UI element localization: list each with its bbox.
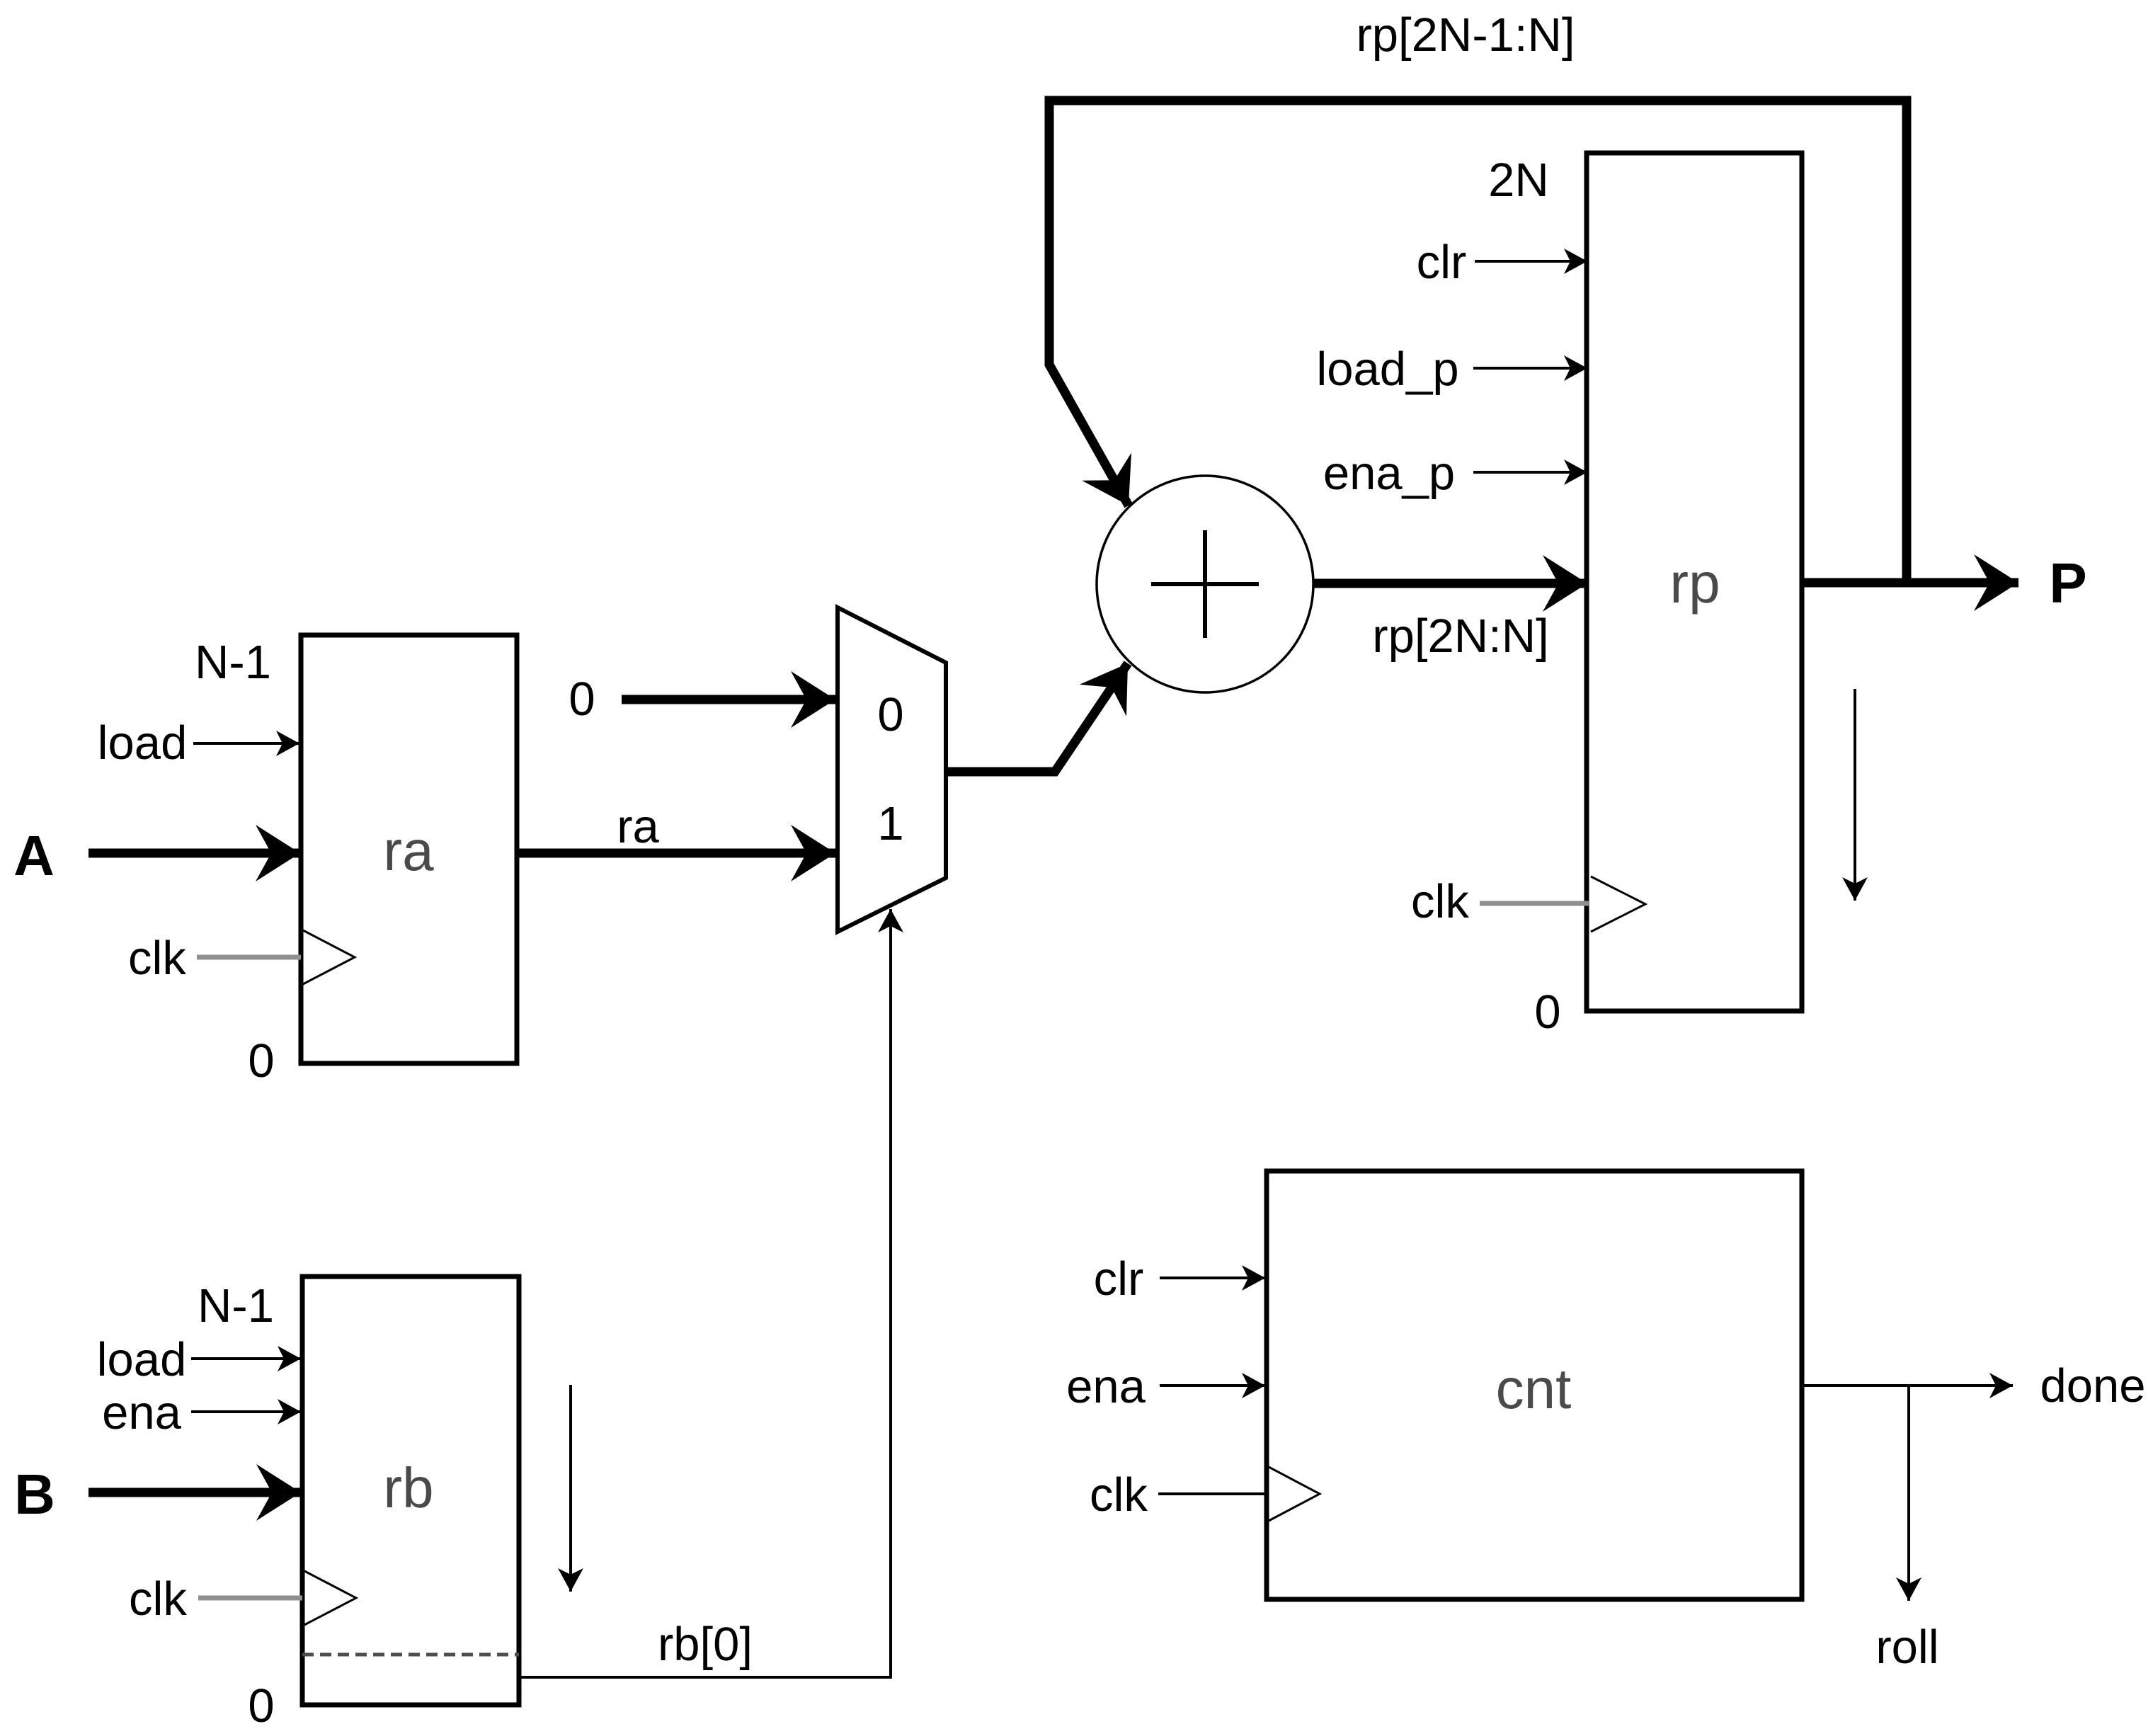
wire adder -> rp (bus) rp[2N:N]	[1313, 579, 1587, 588]
svg-text:clk: clk	[129, 1572, 187, 1626]
svg-text:clk: clk	[1090, 1468, 1148, 1521]
counter cnt	[1267, 1171, 1802, 1599]
svg-text:A: A	[13, 824, 55, 887]
wire A -> ra (bus)	[88, 849, 300, 858]
svg-text:0: 0	[569, 673, 595, 726]
mux M1	[838, 607, 946, 932]
svg-text:N-1: N-1	[195, 636, 271, 689]
svg-text:1: 1	[877, 797, 903, 850]
svg-text:ena: ena	[102, 1386, 182, 1439]
wire cnt -> done	[1802, 1384, 2013, 1387]
adder plus sign	[1151, 582, 1259, 586]
register ra	[301, 635, 517, 1063]
adder U1 (circle)	[1097, 476, 1313, 692]
svg-text:clr: clr	[1094, 1252, 1144, 1306]
svg-text:rp[2N-1:N]: rp[2N-1:N]	[1356, 8, 1575, 62]
svg-text:clr: clr	[1417, 236, 1467, 289]
register rp clock triangle	[1591, 876, 1645, 932]
shift-down arrow (rb)	[569, 1385, 572, 1592]
wire load -> rb	[191, 1357, 301, 1360]
svg-text:load: load	[98, 716, 188, 770]
counter cnt clock triangle	[1269, 1467, 1320, 1521]
register ra clock triangle	[303, 930, 355, 984]
svg-text:roll: roll	[1875, 1621, 1938, 1674]
svg-text:2N: 2N	[1488, 154, 1549, 207]
svg-text:ra: ra	[383, 819, 434, 882]
svg-text:clk: clk	[128, 932, 186, 985]
register rp	[1587, 153, 1802, 1011]
wire clk -> rb (gray)	[198, 1596, 302, 1601]
svg-text:clk: clk	[1411, 875, 1469, 928]
svg-text:0: 0	[248, 1679, 274, 1732]
svg-text:B: B	[14, 1463, 55, 1526]
wire load -> ra	[193, 742, 299, 745]
svg-text:rp: rp	[1669, 552, 1720, 615]
svg-text:P: P	[2049, 552, 2086, 615]
wire mux -> adder (bus)	[946, 663, 1128, 772]
wire clk -> ra (gray)	[197, 955, 301, 960]
wire rp feedback rp[2N-1:N] (bus)	[1049, 101, 1907, 583]
register rb lsb dashed line	[302, 1653, 519, 1657]
wire clr -> cnt	[1160, 1277, 1265, 1279]
svg-text:ena_p: ena_p	[1323, 447, 1455, 500]
wire load_p -> rp	[1473, 367, 1587, 370]
svg-text:load: load	[97, 1333, 187, 1386]
wire B -> rb (bus)	[88, 1488, 301, 1497]
wire roll branch	[1907, 1386, 1910, 1601]
wire rb[0] -> mux select	[519, 909, 891, 1677]
svg-text:rp[2N:N]: rp[2N:N]	[1372, 610, 1548, 663]
svg-text:0: 0	[248, 1034, 274, 1087]
svg-text:0: 0	[1534, 986, 1560, 1039]
svg-text:ena: ena	[1066, 1360, 1146, 1413]
wire ra -> mux input 1 (bus)	[517, 849, 835, 858]
register rb	[302, 1277, 519, 1705]
svg-text:done: done	[2040, 1359, 2145, 1412]
wire rp -> P (bus)	[1803, 578, 2018, 588]
wire ena_p -> rp	[1473, 471, 1587, 474]
svg-text:ra: ra	[617, 800, 659, 853]
wire ena -> rb	[191, 1410, 301, 1413]
wire clr -> rp	[1475, 260, 1587, 263]
wire constant 0 -> mux input 0 (bus)	[622, 695, 835, 704]
svg-text:rb: rb	[383, 1456, 433, 1519]
wire ena -> cnt	[1160, 1384, 1265, 1387]
svg-text:cnt: cnt	[1496, 1357, 1572, 1420]
shift-down arrow (rp)	[1854, 689, 1856, 901]
svg-text:N-1: N-1	[198, 1279, 274, 1332]
wire clk -> cnt	[1158, 1492, 1267, 1495]
svg-text:load_p: load_p	[1316, 343, 1458, 396]
svg-text:rb[0]: rb[0]	[658, 1618, 753, 1671]
svg-text:0: 0	[877, 688, 903, 741]
wire clk -> rp (gray)	[1480, 901, 1589, 906]
register rb clock triangle	[304, 1571, 356, 1625]
